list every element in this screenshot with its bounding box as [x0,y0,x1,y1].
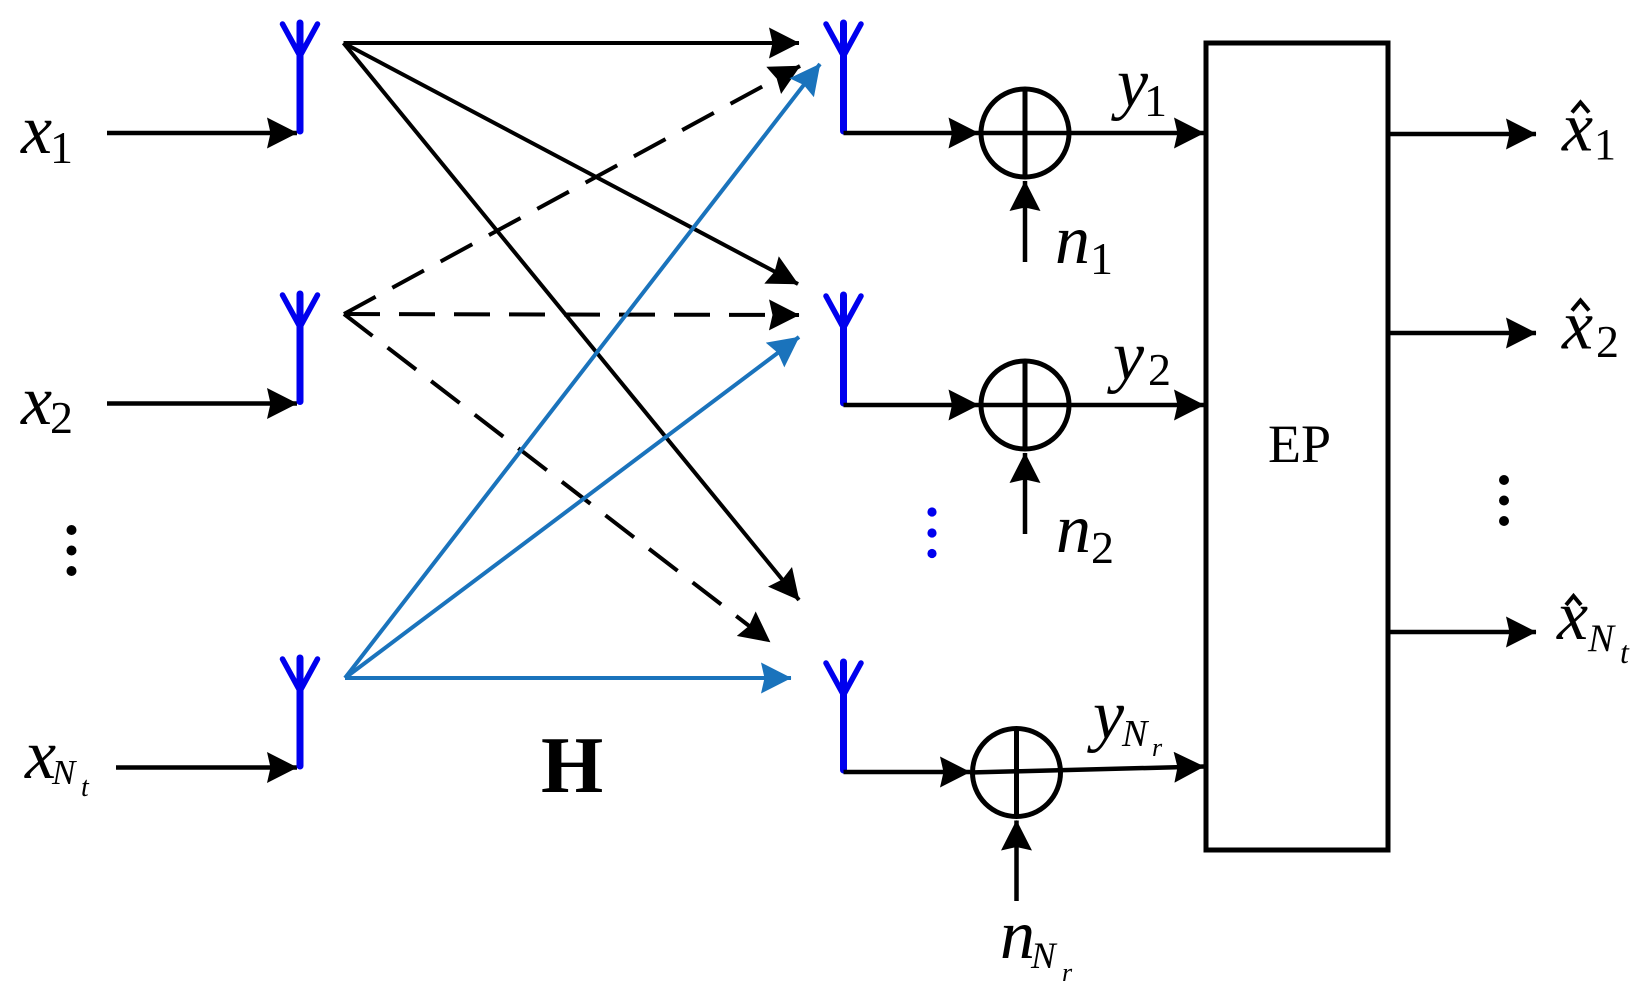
antenna RX3 [826,662,861,770]
svg-text:n: n [1055,202,1090,279]
svg-text:y: y [1087,677,1125,754]
EP detector box [1206,43,1388,850]
node output ellipsis dots [1499,475,1509,526]
label x1 [20,92,73,173]
svg-text:N: N [1030,936,1058,977]
node rx ellipsis dots blue [927,507,936,558]
wire output x1 [1388,132,1536,137]
wire channel h12 dashed [344,66,800,314]
antenna TX2 [283,294,318,402]
label y1 [1111,45,1167,126]
wire channel h31 [344,43,800,600]
wire output x2 [1388,331,1536,336]
svg-text:H: H [541,722,603,810]
wire noise n1 arrow [1023,181,1028,262]
wire x2 input arrow [107,401,297,406]
wire channel h11 [344,41,800,45]
wire channel h33 blue [345,676,791,680]
svg-text:t: t [1620,634,1630,670]
svg-text:x: x [20,92,52,169]
svg-text:N: N [1121,713,1150,755]
antenna TX3 [283,658,318,766]
wire xNt input arrow [116,765,297,770]
label n1 [1055,202,1113,284]
label xhat2 [1561,288,1619,368]
wire noise nNr arrow [1014,821,1019,902]
wire adder1 to EP [979,131,1205,136]
svg-text:x: x [1556,578,1588,655]
svg-text:1: 1 [1090,233,1113,284]
svg-text:x: x [1561,90,1593,167]
svg-text:N: N [51,753,77,792]
label xhatNt [1556,578,1630,670]
wire noise n2 arrow [1023,453,1028,534]
wire rx1 to adder1 [844,131,979,136]
label xhat1 [1561,90,1616,170]
wire rx3 to adder3 [844,770,971,775]
adder A3 [973,729,1061,817]
antenna TX1 [283,23,318,131]
svg-text:x: x [20,363,52,440]
svg-text:r: r [1062,958,1073,987]
adder A1 [981,89,1069,177]
wire channel h22 dashed [344,314,799,315]
wire channel h32 dashed [344,314,770,642]
wire adder3 to EP [970,767,1204,773]
svg-text:1: 1 [50,122,73,173]
label n2 [1056,491,1114,573]
svg-text:t: t [81,772,90,803]
wire x1 input arrow [107,131,297,136]
label nNr [1000,897,1073,987]
adder A2 [981,361,1069,449]
wire channel h21 [344,43,799,284]
label xNt [24,717,90,803]
antenna RX1 [826,23,861,131]
label y2 [1107,318,1171,395]
svg-text:2: 2 [1596,316,1619,367]
svg-text:2: 2 [50,392,73,443]
svg-text:1: 1 [1144,75,1167,126]
label yNr [1087,677,1163,762]
antenna RX2 [826,295,861,403]
svg-text:y: y [1107,318,1145,395]
svg-text:n: n [1056,491,1091,568]
svg-text:N: N [1587,617,1616,660]
svg-text:1: 1 [1594,120,1616,169]
svg-text:2: 2 [1148,344,1171,395]
wire channel h23 blue [345,337,799,678]
wire adder2 to EP [979,403,1205,408]
wire output xNt [1388,630,1536,635]
svg-text:2: 2 [1091,522,1114,573]
svg-text:n: n [1000,897,1035,974]
wire channel h13 blue [345,64,820,678]
svg-text:r: r [1152,733,1163,762]
svg-text:EP: EP [1268,414,1331,474]
wire rx2 to adder2 [844,403,979,408]
label x2 [20,363,73,443]
node tx ellipsis dots [67,525,77,576]
svg-text:x: x [1561,288,1593,365]
